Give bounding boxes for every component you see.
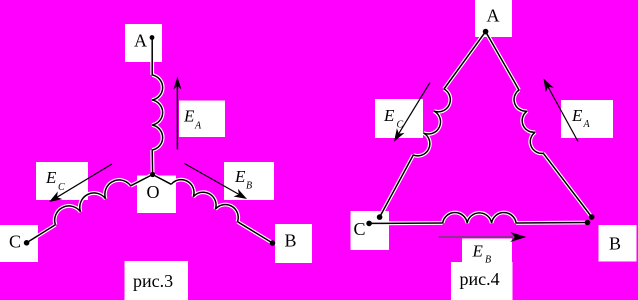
- svg-text:С: С: [354, 219, 366, 239]
- coil (winding) A phase (fig.3): [152, 75, 162, 150]
- EMF arrow EB (fig.3): [185, 164, 248, 200]
- svg-text:B: B: [485, 255, 491, 266]
- EMF arrow EA (fig.4): [544, 79, 579, 142]
- node A dot (fig.3): [150, 35, 155, 40]
- svg-text:E: E: [472, 242, 484, 261]
- wire A-coil (fig.3): [151, 39, 153, 75]
- node A dot (fig.4): [483, 29, 489, 35]
- EMF label box EB (fig.4): [462, 239, 512, 263]
- EMF arrow EC (fig.3): [49, 164, 112, 202]
- svg-text:C: C: [397, 120, 404, 131]
- node C dot lower (fig.4): [366, 221, 372, 227]
- wire O to C coil (fig.3): [131, 175, 153, 186]
- coil (winding) C phase left side (fig.4): [413, 89, 450, 156]
- node B label box (fig.4): [599, 225, 637, 262]
- svg-text:А: А: [134, 31, 147, 51]
- EMF arrow EA (fig.3): [173, 77, 181, 150]
- svg-text:рис.4: рис.4: [460, 269, 500, 289]
- svg-text:О: О: [147, 182, 160, 202]
- svg-text:A: A: [194, 121, 202, 132]
- wire A to left coil (fig.4): [444, 32, 486, 89]
- wire left coil to C (fig.4): [380, 155, 414, 217]
- EMF label box EC (fig.4): [375, 99, 423, 138]
- node B dot (fig.3): [270, 240, 276, 246]
- svg-text:В: В: [609, 234, 621, 254]
- node B label box (fig.3): [275, 224, 312, 263]
- svg-text:E: E: [234, 167, 246, 186]
- node O label box (fig.3): [137, 176, 176, 214]
- svg-text:E: E: [383, 106, 395, 125]
- svg-text:A: A: [583, 119, 591, 130]
- wire bottom coil to B (fig.4): [516, 222, 587, 225]
- EMF label box EA (fig.3): [179, 101, 225, 138]
- node C dot upper (fig.4): [377, 214, 383, 220]
- svg-text:B: B: [246, 181, 252, 192]
- wire C to bottom coil (fig.4): [369, 222, 443, 224]
- node C dot (fig.3): [24, 240, 30, 246]
- EMF label box EB (fig.3): [224, 162, 274, 200]
- node B dot lower (fig.4): [585, 220, 591, 226]
- wire coil-B (fig.3): [238, 222, 273, 243]
- svg-text:E: E: [45, 168, 57, 187]
- coil (winding) A phase right side (fig.4): [514, 90, 543, 153]
- node O dot (fig.3): [150, 172, 155, 177]
- svg-text:рис.3: рис.3: [133, 271, 173, 291]
- node A label box (fig.4): [475, 0, 512, 37]
- svg-text:В: В: [285, 231, 297, 251]
- wire white-halo underlay (all wires fig.3 and fig.4): [27, 32, 592, 243]
- caption box fig.3: [125, 261, 189, 300]
- coil (winding) B phase (fig.3): [171, 180, 238, 222]
- node C label box (fig.4): [351, 211, 390, 250]
- svg-text:А: А: [487, 6, 500, 26]
- wire right coil to B (fig.4): [543, 153, 591, 217]
- EMF arrow EC (fig.4): [394, 83, 430, 142]
- wire coil-O (fig.3): [151, 150, 153, 175]
- wire A to right coil (fig.4): [486, 32, 519, 90]
- coil (winding) C phase (fig.3): [55, 180, 131, 225]
- node B dot upper (fig.4): [589, 214, 595, 220]
- caption box fig.4: [451, 262, 513, 300]
- svg-text:E: E: [571, 106, 583, 125]
- node A label box (fig.3): [125, 24, 162, 62]
- EMF label box EA (fig.4): [561, 100, 613, 138]
- node C label box (fig.3): [0, 225, 38, 262]
- coil (winding) B phase bottom (fig.4): [443, 213, 516, 223]
- wire O to B coil (fig.3): [153, 175, 172, 185]
- svg-text:E: E: [183, 107, 195, 126]
- svg-text:C: C: [58, 182, 65, 193]
- EMF label box EC (fig.3): [36, 162, 88, 200]
- svg-text:С: С: [9, 232, 21, 252]
- EMF arrow EB (fig.4): [439, 232, 527, 242]
- wire coil-C (fig.3): [27, 225, 56, 243]
